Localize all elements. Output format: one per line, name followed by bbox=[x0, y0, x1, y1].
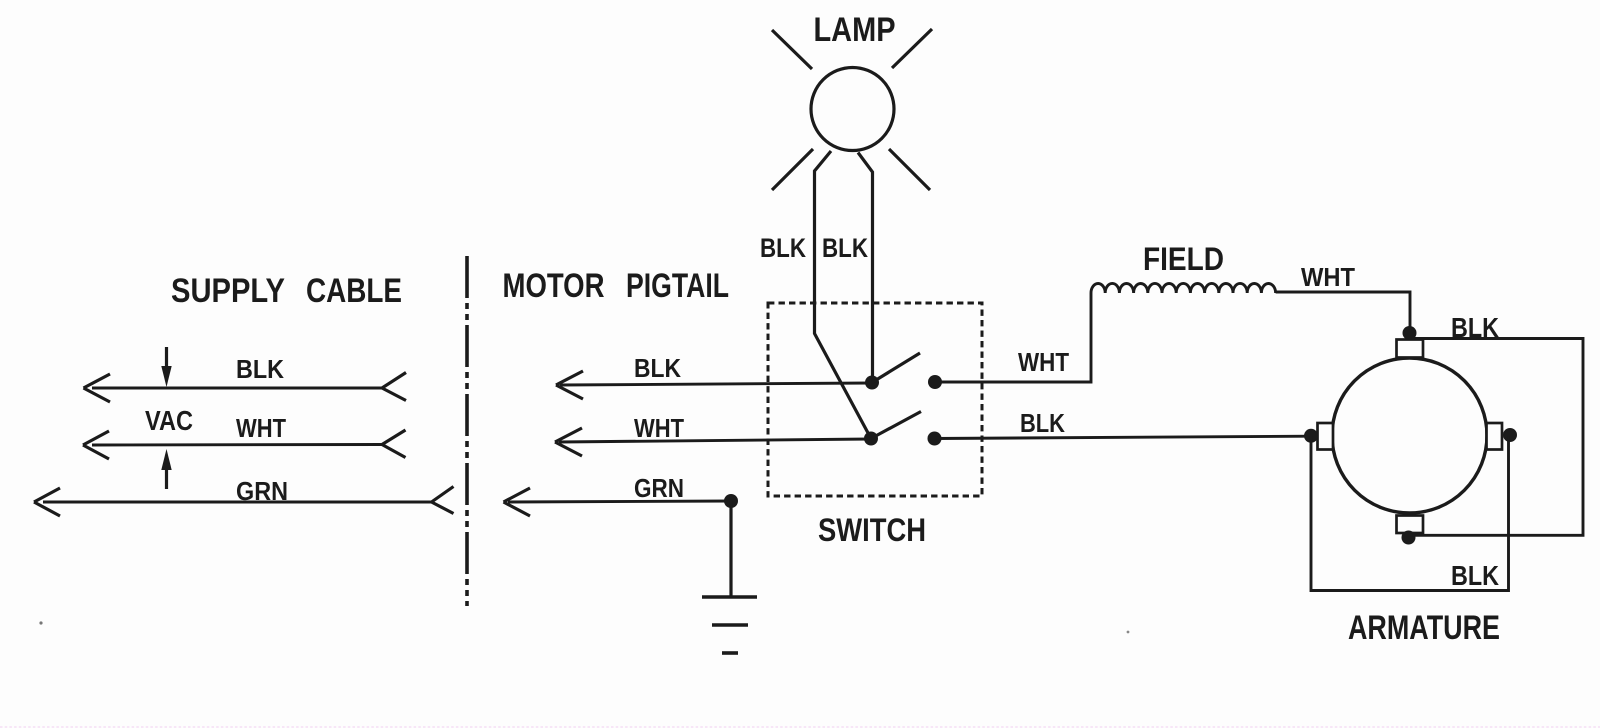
lamp ray upper-right bbox=[892, 29, 932, 68]
svg-text:GRN: GRN bbox=[634, 473, 684, 503]
wire WHT field coil to armature top bbox=[1276, 292, 1410, 333]
armature brush bottom bbox=[1397, 516, 1424, 534]
field coil L1 bbox=[1091, 283, 1276, 293]
pigtail BLK wire to switch upper common bbox=[556, 371, 872, 399]
scan speck left bbox=[39, 621, 42, 624]
svg-text:LAMP: LAMP bbox=[814, 11, 896, 49]
svg-text:BLK: BLK bbox=[760, 233, 806, 263]
switch pole1 common terminal dot bbox=[865, 376, 879, 390]
svg-text:SWITCH: SWITCH bbox=[818, 512, 926, 548]
svg-text:SUPPLY: SUPPLY bbox=[171, 272, 285, 310]
svg-text:BLK: BLK bbox=[1451, 312, 1499, 343]
svg-text:FIELD: FIELD bbox=[1143, 241, 1224, 277]
switch pole2 common terminal dot bbox=[864, 432, 878, 446]
switch pole2 output terminal dot bbox=[928, 432, 942, 446]
cable divider dash-dot line bbox=[465, 256, 469, 606]
svg-text:WHT: WHT bbox=[1018, 347, 1069, 377]
wire BLK armature top to bottom outer loop bbox=[1410, 339, 1583, 536]
armature top terminal dot bbox=[1403, 326, 1417, 340]
switch pole2 blade bbox=[871, 412, 921, 439]
supply cable WHT conductor with arrowhead and frayed end bbox=[83, 430, 406, 459]
armature M1 body circle bbox=[1332, 358, 1487, 513]
scan artifact faint dotted line bottom bbox=[0, 726, 1600, 728]
wire ground drop bbox=[729, 501, 732, 597]
armature brush left bbox=[1318, 423, 1334, 450]
svg-text:BLK: BLK bbox=[236, 354, 284, 384]
label SUPPLY CABLE bbox=[171, 272, 402, 310]
svg-text:WHT: WHT bbox=[1301, 262, 1355, 292]
armature right terminal dot bbox=[1503, 428, 1517, 442]
svg-text:BLK: BLK bbox=[1451, 560, 1499, 591]
lamp ray lower-right bbox=[889, 149, 930, 190]
svg-text:WHT: WHT bbox=[236, 413, 286, 443]
label MOTOR PIGTAIL bbox=[503, 267, 730, 305]
wire WHT switch pole1 to field coil bbox=[935, 293, 1091, 382]
wire lamp left lead BLK to switch lower common bbox=[815, 151, 872, 439]
svg-text:BLK: BLK bbox=[634, 353, 681, 383]
ground symbol bbox=[702, 597, 757, 653]
wire BLK switch pole2 to armature left terminal bbox=[935, 436, 1312, 438]
lamp ray upper-left bbox=[772, 30, 812, 69]
svg-text:PIGTAIL: PIGTAIL bbox=[626, 267, 729, 305]
armature brush top bbox=[1397, 340, 1424, 358]
supply cable GRN conductor with arrowhead and frayed end bbox=[34, 487, 454, 517]
supply cable BLK conductor with arrowhead and frayed end bbox=[84, 373, 407, 403]
junction GRN to ground bbox=[724, 494, 738, 508]
armature left terminal dot bbox=[1304, 429, 1318, 443]
svg-text:BLK: BLK bbox=[822, 233, 868, 263]
svg-text:GRN: GRN bbox=[236, 476, 288, 506]
lamp ray lower-left bbox=[772, 149, 813, 190]
armature bottom terminal dot bbox=[1402, 531, 1416, 545]
pigtail GRN wire to ground junction bbox=[504, 488, 732, 516]
svg-text:VAC: VAC bbox=[145, 405, 193, 436]
lamp DS1 bulb circle bbox=[811, 68, 894, 151]
armature brush right bbox=[1487, 423, 1503, 450]
scan speck right bbox=[1127, 631, 1130, 634]
wire lamp right lead BLK to switch upper common bbox=[858, 153, 873, 383]
svg-text:WHT: WHT bbox=[634, 413, 684, 443]
pigtail WHT wire to switch lower common bbox=[555, 428, 871, 456]
svg-text:BLK: BLK bbox=[1020, 408, 1065, 438]
switch pole1 output terminal dot bbox=[928, 375, 942, 389]
svg-text:CABLE: CABLE bbox=[306, 272, 402, 310]
switch S1 enclosure dashed box bbox=[768, 303, 982, 496]
switch pole1 blade bbox=[872, 353, 920, 383]
svg-text:ARMATURE: ARMATURE bbox=[1348, 609, 1500, 647]
wire BLK armature left to right lower loop bbox=[1311, 436, 1509, 591]
svg-text:MOTOR: MOTOR bbox=[503, 267, 605, 305]
VAC polarity arrow up bbox=[161, 449, 171, 489]
VAC polarity arrow down bbox=[161, 347, 171, 387]
